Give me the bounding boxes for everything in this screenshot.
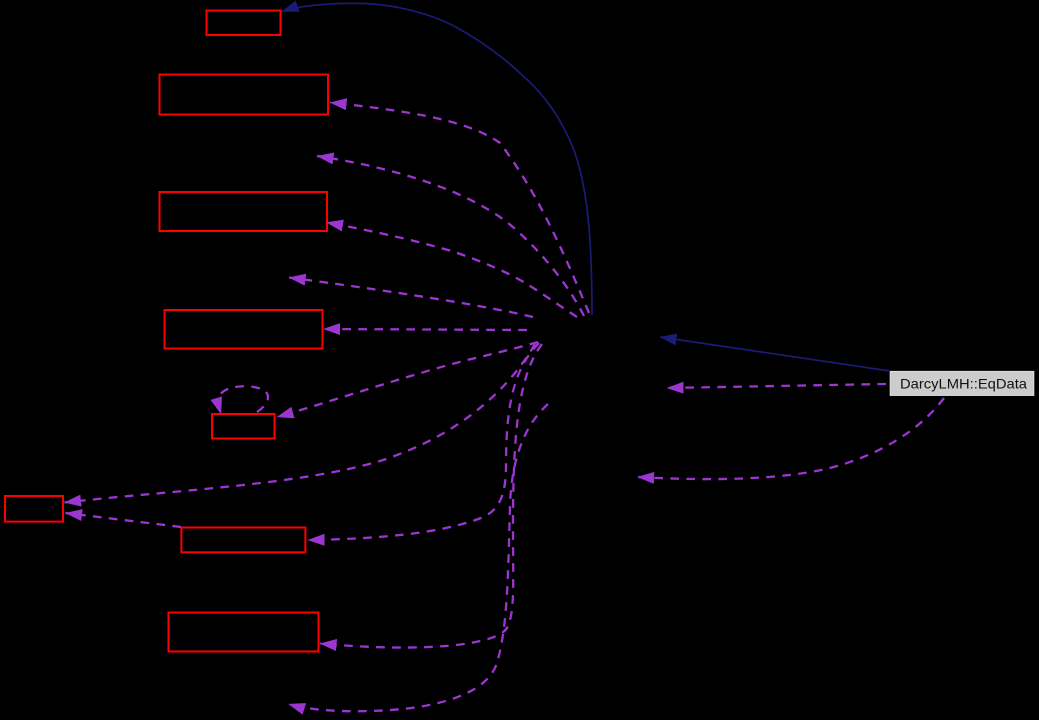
purple edge: hub to F upper [65, 344, 536, 503]
node DarcyLMH::EqData (grey) [890, 371, 1034, 395]
purple edge: invisible node X1 to bottom invisible node [289, 404, 549, 711]
purple edge: grey box to invisible node X2 [638, 398, 945, 479]
node H (red box) [169, 613, 319, 652]
purple edge: hub to C [327, 223, 578, 318]
purple edge: hub to E [277, 342, 538, 417]
node F (far left red box) [5, 496, 63, 522]
blue inheritance line: grey box to hub [660, 337, 890, 371]
purple edge: hub to G (bundle) [308, 343, 539, 540]
node C (red box) [160, 192, 328, 231]
node G (red box) [181, 528, 305, 553]
purple edge: hub to D (straight) [324, 329, 528, 330]
node D (red box) [165, 310, 323, 349]
node A (red box top) [207, 11, 281, 36]
purple edge: G to F [66, 513, 182, 527]
purple edge: hub to invisible node 2 [289, 278, 533, 318]
purple edge: hub to H (bundle) [320, 344, 542, 648]
node E (small red box) [212, 414, 275, 439]
purple self-loop on E [218, 386, 268, 414]
node B (red box) [160, 75, 329, 115]
purple edge: grey box to invisible node X1 [667, 384, 886, 388]
blue inheritance arc: hub to node A [282, 3, 592, 315]
purple edge: hub to B [330, 103, 589, 314]
svg-text:DarcyLMH::EqData: DarcyLMH::EqData [900, 377, 1027, 392]
purple edge: hub to invisible node 1 [317, 156, 584, 316]
